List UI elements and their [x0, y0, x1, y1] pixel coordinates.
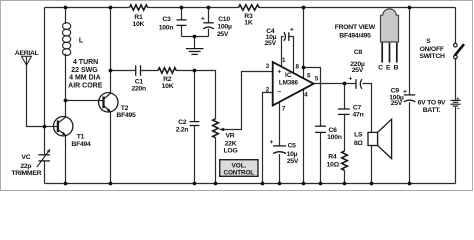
capacitor C9 electrolytic	[404, 95, 415, 102]
svg-text:4: 4	[304, 91, 308, 98]
svg-text:10K: 10K	[132, 21, 144, 28]
svg-text:8: 8	[295, 64, 299, 71]
wire coil bottom to T1 collector	[65, 54, 67, 118]
wire C6 to ground rail	[320, 133, 322, 184]
wire top rail mid segment	[148, 7, 239, 9]
svg-text:+: +	[201, 16, 205, 23]
wire R4 to ground rail	[344, 170, 346, 183]
svg-text:C6: C6	[328, 127, 337, 134]
svg-text:+: +	[348, 76, 352, 83]
wire T1 emitter to ground rail	[65, 135, 67, 184]
capacitor C6	[315, 126, 326, 132]
junction: pin 6 supply line to top rail	[302, 6, 306, 10]
junction: T2 collector line to top rail	[109, 6, 113, 10]
battery 6V-9V	[450, 100, 460, 106]
speaker LS	[368, 132, 378, 145]
wire C7 to R4	[344, 115, 346, 151]
svg-text:+: +	[290, 27, 294, 34]
svg-text:VC: VC	[21, 154, 30, 161]
svg-text:8Ω: 8Ω	[354, 140, 364, 147]
wire C9 to ground rail	[409, 102, 411, 183]
svg-text:100n: 100n	[159, 24, 174, 31]
transistor T1 BF494	[54, 117, 73, 136]
wire right rail below battery	[455, 107, 457, 184]
svg-text:TRIMMER: TRIMMER	[11, 170, 41, 177]
svg-text:C10: C10	[218, 16, 230, 23]
svg-text:C3: C3	[162, 16, 171, 23]
capacitor C1	[136, 65, 141, 76]
capacitor C7	[338, 109, 350, 114]
svg-text:E: E	[386, 65, 391, 72]
junction: R2 / C2 / VR node	[193, 69, 197, 73]
junction: T1 emitter at bottom rail	[64, 182, 68, 186]
resistor R4	[342, 151, 348, 170]
svg-text:2.2n: 2.2n	[176, 127, 189, 134]
svg-text:C: C	[378, 65, 383, 72]
junction: ground node under C3/C10	[193, 35, 197, 39]
aerial symbol	[22, 56, 32, 65]
wire pin 4 to ground rail	[303, 89, 305, 183]
wire C1 to R2	[141, 70, 158, 72]
svg-text:+: +	[456, 96, 459, 102]
junction: coil / T1 collector / T2 base node	[64, 99, 68, 103]
junction: C6 at bottom rail	[319, 182, 323, 186]
wire T2 emitter to ground rail	[110, 112, 112, 184]
wire C4 to pin 8	[289, 37, 294, 74]
svg-text:AIR CORE: AIR CORE	[68, 83, 103, 90]
svg-text:4 TURN: 4 TURN	[73, 59, 98, 66]
svg-text:10Ω: 10Ω	[327, 161, 340, 168]
svg-text:R2: R2	[163, 76, 172, 83]
junction: C9 to top rail	[408, 6, 412, 10]
svg-text:5: 5	[315, 75, 319, 82]
wire C10 to ground node	[208, 29, 210, 37]
svg-text:+: +	[403, 88, 407, 95]
svg-text:R4: R4	[328, 153, 337, 160]
svg-text:22K: 22K	[225, 140, 237, 147]
svg-text:LOG: LOG	[224, 147, 238, 154]
wire top rail left segment	[45, 7, 130, 9]
ground symbol	[186, 49, 204, 55]
svg-text:S: S	[426, 38, 431, 45]
transistor package front view TO-92	[381, 9, 399, 42]
wire C3 branch	[181, 8, 183, 20]
svg-text:25V: 25V	[391, 100, 403, 107]
wire C10 branch	[208, 8, 210, 23]
junction: R4 at bottom rail	[343, 182, 347, 186]
svg-text:T1: T1	[77, 133, 85, 140]
junction: T2 emitter at bottom rail	[109, 182, 113, 186]
svg-text:BATT.: BATT.	[423, 107, 441, 114]
capacitor C4 electrolytic	[284, 32, 289, 41]
capacitor C3	[177, 20, 187, 26]
wire right rail above switch	[455, 8, 457, 44]
svg-text:25V: 25V	[265, 40, 277, 47]
wire C5 to ground rail	[279, 154, 281, 184]
svg-text:25V: 25V	[352, 67, 364, 74]
svg-text:T2: T2	[121, 105, 129, 112]
svg-text:+: +	[269, 139, 273, 146]
svg-text:22 SWG: 22 SWG	[71, 67, 98, 74]
wire C9 branch upper	[409, 8, 411, 95]
junction: C9 at bottom rail	[408, 182, 412, 186]
svg-text:R1: R1	[134, 14, 143, 21]
wire C2 to ground rail	[194, 126, 196, 184]
junction: speaker at bottom rail	[370, 182, 374, 186]
VR wiper arrow	[219, 128, 224, 131]
wire VR bottom to ground rail	[215, 138, 217, 184]
op-amp U1 LM386 triangle	[273, 62, 314, 106]
svg-text:3: 3	[266, 63, 270, 70]
wire coil top stub	[65, 8, 67, 25]
capacitor C8 electrolytic	[356, 79, 362, 89]
wire left rail upper	[44, 8, 46, 155]
trimmer capacitor VC	[37, 151, 50, 167]
svg-text:1K: 1K	[244, 19, 253, 26]
svg-text:C2: C2	[178, 119, 187, 126]
resistor R2	[158, 68, 176, 73]
svg-text:C7: C7	[353, 105, 362, 112]
svg-text:47n: 47n	[353, 112, 364, 119]
junction: pin 6 / pin 8 branch node	[302, 66, 306, 70]
wire VCC to pin 6	[303, 8, 305, 79]
wire pin 2 to ground	[263, 93, 273, 184]
wire speaker to ground rail	[371, 146, 373, 184]
junction: pin 2 ground at bottom rail	[261, 182, 265, 186]
svg-text:AERIAL: AERIAL	[15, 50, 39, 57]
svg-text:220n: 220n	[131, 86, 146, 93]
resistor R3	[239, 5, 259, 10]
wire ground stem	[194, 37, 196, 49]
svg-text:BF495: BF495	[116, 112, 136, 119]
inductor L (4 turn coil)	[63, 23, 71, 56]
svg-text:25V: 25V	[217, 31, 229, 38]
svg-text:BF494/495: BF494/495	[339, 32, 371, 39]
svg-text:100n: 100n	[327, 134, 342, 141]
svg-text:6: 6	[307, 72, 311, 79]
wire aerial stem	[27, 56, 45, 126]
svg-text:C5: C5	[287, 142, 296, 149]
junction: aerial / left rail / T1 base node	[43, 125, 47, 129]
junction: C5 at bottom rail	[278, 182, 282, 186]
svg-text:BF494: BF494	[71, 141, 91, 148]
wire C3 to ground node	[181, 26, 183, 37]
junction: VR at bottom rail	[214, 182, 218, 186]
wire pin 7 to C5	[279, 102, 281, 146]
svg-text:SWITCH: SWITCH	[419, 53, 445, 60]
svg-text:L: L	[79, 37, 84, 44]
svg-text:LM386: LM386	[279, 80, 299, 87]
svg-text:6V TO 9V: 6V TO 9V	[418, 100, 446, 107]
svg-text:C8: C8	[354, 49, 363, 56]
wire C7 branch	[344, 84, 346, 109]
wire pin 5 output	[313, 83, 356, 85]
svg-text:100µ: 100µ	[217, 24, 232, 31]
svg-text:2: 2	[266, 86, 270, 93]
transistor T2 BF495	[99, 93, 118, 112]
junction: T2 collector / C1 node	[109, 69, 113, 73]
wire pin6 node to C6	[304, 68, 321, 126]
wire pin 1 to C4	[282, 37, 284, 68]
junction: C2 at bottom rail	[193, 182, 197, 186]
svg-text:−: −	[277, 89, 281, 96]
svg-text:10K: 10K	[162, 83, 174, 90]
wire VR wiper to pin 3	[221, 72, 273, 130]
wire bottom rail	[45, 183, 456, 185]
wire T1 base	[45, 126, 58, 128]
svg-text:−: −	[457, 106, 460, 112]
potentiometer VR 22K	[213, 119, 219, 138]
wire node A to T2 base	[66, 100, 104, 102]
wire VCC to T2 collector	[110, 8, 112, 94]
svg-text:1: 1	[282, 57, 286, 64]
svg-text:LS: LS	[354, 131, 363, 138]
svg-text:B: B	[393, 65, 398, 72]
switch S	[454, 43, 458, 47]
wire C2 branch upper	[194, 71, 196, 122]
capacitor C5 electrolytic	[273, 146, 286, 154]
resistor R1	[130, 5, 148, 10]
svg-text:4 MM DIA: 4 MM DIA	[69, 75, 101, 82]
junction: pin 4 at bottom rail	[302, 182, 306, 186]
svg-text:7: 7	[282, 105, 286, 112]
wire ground node horizontal	[182, 36, 209, 38]
svg-text:+: +	[277, 69, 281, 76]
capacitor C10 electrolytic	[203, 23, 213, 29]
wire T2 collector to C1	[111, 70, 136, 72]
wire right rail switch to battery	[455, 59, 457, 100]
svg-text:FRONT VIEW: FRONT VIEW	[335, 24, 376, 31]
junction: C3 to top rail	[180, 6, 184, 10]
svg-text:IC: IC	[285, 72, 292, 79]
junction: coil L to top rail	[64, 6, 68, 10]
VOL. CONTROL box	[220, 160, 258, 177]
svg-text:CONTROL: CONTROL	[224, 169, 255, 176]
wire C8 to speaker	[362, 84, 371, 133]
svg-text:VR: VR	[226, 133, 235, 140]
wire R2 to VR top	[176, 71, 215, 119]
svg-text:25V: 25V	[287, 158, 299, 165]
capacitor C2	[190, 122, 200, 126]
wire left rail lower	[44, 161, 46, 184]
junction: C10 to top rail	[207, 6, 211, 10]
junction: output / C7 branch node	[343, 82, 347, 86]
wire top rail right segment	[259, 7, 456, 9]
